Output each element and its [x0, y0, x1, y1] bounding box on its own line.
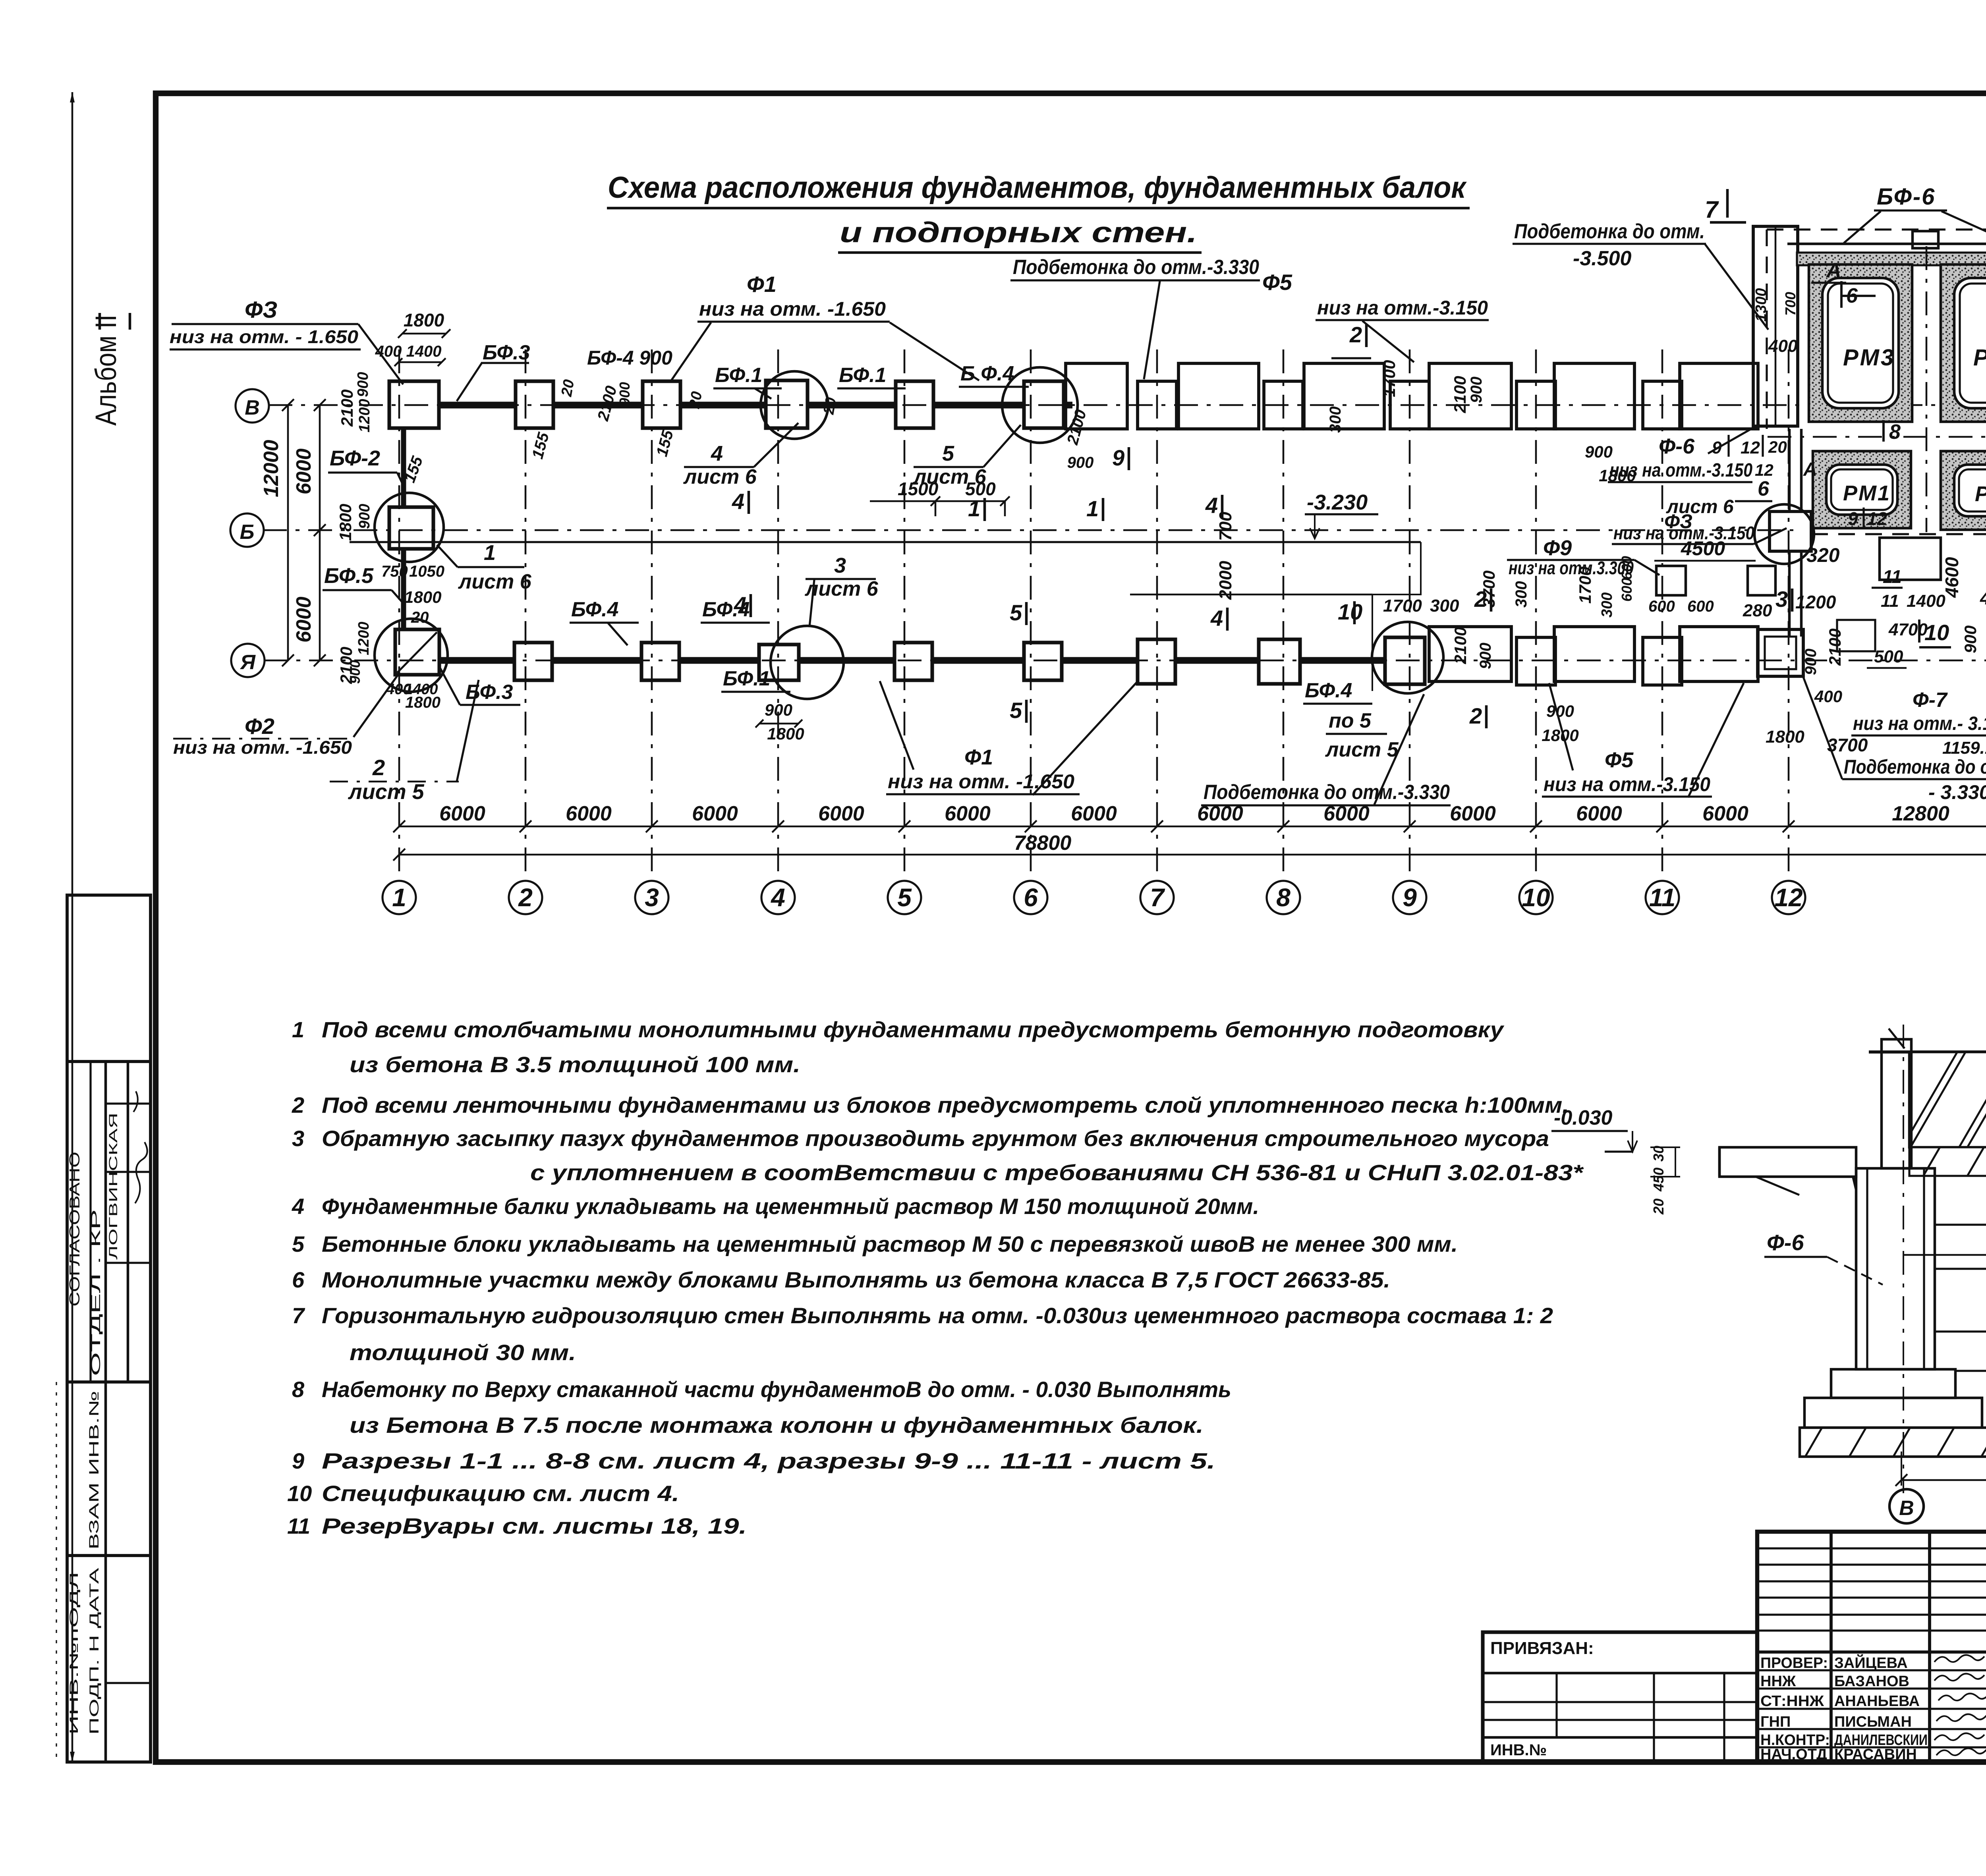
strip footing row V wide blocks: [1066, 363, 1127, 429]
svg-text:7: 7: [1705, 196, 1719, 223]
stamp row lines left: [1757, 1669, 1986, 1671]
sidebar sub lines: [106, 1102, 151, 1104]
svg-text:10: 10: [1338, 599, 1362, 624]
svg-text:400: 400: [1768, 336, 1798, 356]
svg-text:4500: 4500: [1681, 537, 1725, 560]
foundation F-row-A col6: [1024, 643, 1062, 680]
svg-text:1050: 1050: [409, 563, 444, 580]
beam BF segments row V: [439, 402, 516, 409]
axis circle B section: [1889, 1489, 1924, 1523]
svg-text:Схема расположения фундаментов: Схема расположения фундаментов, фундамен…: [608, 171, 1467, 205]
svg-text:низ на отм.-3.150: низ на отм.-3.150: [1544, 773, 1710, 795]
svg-text:лист 6: лист 6: [683, 465, 757, 488]
detail circle B col1: [375, 493, 444, 562]
svg-text:низ на отм.-3.150: низ на отм.-3.150: [1609, 460, 1752, 481]
svg-text:900: 900: [355, 372, 371, 397]
leader podbetonka top: [1144, 281, 1160, 379]
svg-text:лист 6: лист 6: [458, 570, 532, 593]
vertical dim line 6000x2: [319, 405, 321, 660]
svg-text:1800: 1800: [405, 694, 440, 711]
svg-text:1: 1: [392, 883, 406, 912]
svg-text:АНАНЬЕВА: АНАНЬЕВА: [1834, 1693, 1920, 1710]
leader BF-6 right: [1942, 211, 1986, 243]
sidebar line end soglasovano: [67, 1380, 151, 1384]
svg-text:600: 600: [1648, 598, 1675, 615]
structure corridor axis horizontal: [1768, 436, 1986, 438]
svg-text:900: 900: [765, 701, 792, 719]
sidebar col divider 1: [104, 1062, 107, 1762]
stamp upper rows: [1757, 1547, 1986, 1549]
svg-text:1: 1: [1086, 496, 1099, 521]
grid circle 8: [1267, 881, 1300, 914]
section upper column: [1882, 1039, 1911, 1168]
svg-text:320: 320: [1806, 544, 1840, 566]
svg-text:700: 700: [1216, 511, 1235, 541]
svg-text:900: 900: [1961, 625, 1980, 653]
vertical dim line 12000: [287, 405, 289, 660]
svg-text:КРАСАВИН: КРАСАВИН: [1834, 1746, 1917, 1763]
leader F1 b: [890, 322, 979, 380]
svg-text:толщиной 30 мм.: толщиной 30 мм.: [350, 1340, 576, 1365]
section wall top line: [1869, 1050, 1986, 1054]
section mark 2 top underline: [1331, 357, 1371, 359]
svg-text:10: 10: [1924, 620, 1949, 645]
foundation F-row-A col8: [1259, 639, 1300, 684]
detail circle A col4: [771, 626, 844, 699]
svg-text:1: 1: [292, 1017, 304, 1042]
svg-text:5: 5: [1010, 698, 1022, 723]
svg-text:ЗАЙЦЕВА: ЗАЙЦЕВА: [1834, 1654, 1908, 1671]
svg-text:из бетона В 3.5 толщиной 10: из бетона В 3.5 толщиной 100 мм.: [350, 1052, 800, 1077]
svg-text:Монолитные участки между бл: Монолитные участки между блоками Выполня…: [322, 1267, 1390, 1292]
svg-text:БАЗАНОВ: БАЗАНОВ: [1834, 1673, 1909, 1690]
svg-text:3: 3: [645, 883, 659, 912]
foundation F-row-V col3: [643, 381, 680, 428]
svg-text:Ф-6: Ф-6: [1767, 1230, 1804, 1255]
leader 5-6: [983, 425, 1021, 467]
svg-text:3: 3: [292, 1126, 304, 1151]
svg-text:-3.230: -3.230: [1307, 490, 1368, 514]
svg-text:6000: 6000: [439, 802, 485, 825]
grid circle 4: [761, 881, 795, 914]
svg-text:900: 900: [1468, 376, 1485, 403]
svg-text:Спецификацию см. лист 4.: Спецификацию см. лист 4.: [322, 1481, 679, 1506]
svg-text:20: 20: [558, 378, 578, 398]
strip footing row A column blocks: [1517, 637, 1555, 685]
svg-text:6000: 6000: [1576, 802, 1622, 825]
svg-text:низ на отм.-3.150: низ на отм.-3.150: [1317, 297, 1488, 319]
svg-text:БФ.1: БФ.1: [723, 667, 770, 690]
svg-text:300: 300: [1513, 581, 1530, 608]
grid circle 9: [1393, 881, 1426, 914]
section column step 1: [1831, 1369, 1955, 1398]
svg-text:ПРОВЕР:: ПРОВЕР:: [1760, 1655, 1828, 1671]
foundation F-7 col12 row A: [1758, 629, 1803, 676]
svg-text:3700: 3700: [1827, 735, 1868, 755]
grid line 2 vertical: [525, 349, 527, 881]
RM4 inner opening: [1954, 278, 1986, 408]
svg-text:Альбом II: Альбом II: [89, 315, 122, 426]
svg-text:12: 12: [1741, 438, 1760, 457]
strip footing row V column blocks: [1138, 381, 1177, 429]
svg-text:Подбетонка до отм.-3.330: Подбетонка до отм.-3.330: [1013, 256, 1259, 279]
axis line B horizontal: [263, 529, 1793, 531]
svg-text:2100: 2100: [1451, 376, 1469, 413]
grid line 5 vertical: [904, 349, 906, 881]
leader F1 bottom a: [880, 681, 914, 770]
sidebar col divider 2: [127, 1062, 129, 1382]
grid line 7 vertical: [1156, 349, 1158, 881]
svg-text:Фундаментные балки укладывать: Фундаментные балки укладывать на цементн…: [322, 1194, 1259, 1219]
leader podbetonka br: [1803, 677, 1842, 779]
svg-text:ИНВ.№: ИНВ.№: [1490, 1741, 1547, 1759]
svg-text:2: 2: [292, 1092, 304, 1117]
leader F1 a: [671, 322, 711, 380]
svg-text:с уплотнением в соотВетствии: с уплотнением в соотВетствии с требовани…: [530, 1160, 1584, 1185]
RM2 inner opening: [1954, 465, 1986, 516]
svg-text:4: 4: [732, 489, 744, 514]
svg-text:400: 400: [375, 343, 402, 360]
privyazan row line 4: [1483, 1736, 1757, 1739]
svg-text:20: 20: [1768, 438, 1787, 456]
detail circle A col9: [1372, 622, 1443, 693]
svg-text:78800: 78800: [1014, 832, 1072, 855]
svg-text:ОТДЕЛ . КР: ОТДЕЛ . КР: [89, 1209, 103, 1376]
svg-text:20: 20: [820, 396, 840, 416]
sidebar dotted fold line: [56, 1382, 57, 1762]
svg-text:1800: 1800: [404, 310, 444, 330]
svg-text:РМ1: РМ1: [1843, 481, 1891, 505]
main title underline 1: [607, 207, 1470, 210]
detail circle V col6: [1002, 367, 1078, 443]
svg-text:-0.030: -0.030: [1554, 1106, 1613, 1129]
retaining wall col12 strip: [1753, 226, 1798, 426]
leader F9: [1634, 560, 1660, 575]
svg-text:Ф2: Ф2: [245, 714, 274, 739]
grid line 12 vertical: [1788, 349, 1790, 881]
svg-text:лист 5: лист 5: [348, 780, 425, 804]
sidebar col divider 0: [89, 1062, 91, 1382]
svg-text:ГНП: ГНП: [1760, 1714, 1791, 1730]
svg-text:6: 6: [1024, 883, 1038, 912]
dimension line 78800: [399, 854, 1986, 856]
grid line 9 vertical: [1409, 349, 1411, 881]
leader 4-6: [754, 423, 798, 467]
beam segments col12 vertical: [1788, 429, 1791, 510]
svg-text:Разрезы 1-1 ... 8-8 см. ли: Разрезы 1-1 ... 8-8 см. лист 4, разрезы …: [322, 1448, 1215, 1473]
svg-text:4: 4: [1205, 493, 1218, 518]
sidebar signature: [133, 1091, 147, 1203]
svg-text:30: 30: [1650, 1146, 1667, 1162]
sidebar outer box: [67, 895, 151, 1762]
stamp small table verticals: [1830, 1532, 1833, 1762]
leader podbetonka bottom: [1374, 694, 1424, 805]
svg-text:ПОДП. Н ДАТА: ПОДП. Н ДАТА: [87, 1567, 101, 1735]
svg-text:4: 4: [770, 883, 785, 912]
svg-text:10: 10: [1522, 883, 1550, 912]
sidebar top divider: [67, 1060, 151, 1063]
stamp line above prover row: [1757, 1650, 1986, 1654]
foundation F-row-V col1: [389, 381, 439, 428]
svg-text:Подбетонка до отм.: Подбетонка до отм.: [1844, 756, 1986, 778]
svg-text:РМ3: РМ3: [1843, 345, 1895, 371]
axis circle V: [236, 389, 269, 423]
svg-text:4: 4: [734, 592, 746, 617]
svg-text:900: 900: [616, 382, 633, 406]
svg-text:2100: 2100: [338, 390, 356, 427]
section column body: [1856, 1168, 1935, 1369]
label F3 niz underline: [170, 348, 361, 350]
svg-text:РМ2: РМ2: [1975, 482, 1986, 506]
svg-text:РМ4: РМ4: [1973, 345, 1986, 371]
foundation F-row-A col9: [1385, 637, 1425, 684]
svg-text:11: 11: [1883, 566, 1902, 587]
section column step 2: [1804, 1398, 1982, 1428]
fold line left: [71, 92, 73, 1762]
section slab hatched band: [1909, 1052, 1986, 1147]
svg-text:низ на отм. -1.650: низ на отм. -1.650: [173, 737, 352, 758]
svg-text:Б: Б: [240, 521, 255, 544]
svg-text:700: 700: [1782, 292, 1799, 316]
svg-text:450: 450: [1650, 1168, 1667, 1192]
structure top small tab: [1913, 231, 1938, 248]
svg-text:1700: 1700: [1383, 596, 1422, 616]
svg-text:Горизонтальную гидроизоляцию с: Горизонтальную гидроизоляцию стен Выполн…: [322, 1303, 1553, 1328]
svg-text:НАЧ.ОТД: НАЧ.ОТД: [1760, 1746, 1827, 1763]
grid circle 7: [1140, 881, 1174, 914]
svg-text:1800: 1800: [1766, 727, 1804, 747]
leader BF-6 left: [1844, 211, 1881, 243]
svg-text:5: 5: [292, 1231, 305, 1256]
svg-text:1200: 1200: [355, 621, 372, 655]
foundation F9 a: [1656, 566, 1686, 595]
beam BF-5 vertical col1: [401, 549, 406, 629]
section beam left: [1719, 1147, 1856, 1177]
svg-text:2: 2: [518, 883, 533, 912]
svg-text:1159.1: 1159.1: [1942, 738, 1986, 758]
leader 2-5: [457, 680, 479, 782]
beam BF-2 vertical col1: [401, 428, 406, 507]
svg-text:6000: 6000: [1702, 802, 1748, 825]
leader F5 top: [1362, 321, 1414, 362]
wall RM3 outer: [1809, 264, 1912, 422]
svg-text:20: 20: [686, 390, 705, 410]
axis circle A: [231, 644, 265, 677]
svg-text:низ на отм. -1.650: низ на отм. -1.650: [699, 298, 886, 320]
label 2 cut line: [330, 781, 459, 783]
leader F5 a: [1549, 683, 1573, 770]
leader F3: [358, 324, 403, 384]
svg-text:12800: 12800: [1892, 802, 1949, 825]
svg-text:9: 9: [1403, 883, 1417, 912]
svg-text:БФ-2: БФ-2: [330, 446, 380, 470]
svg-text:900: 900: [1585, 442, 1613, 461]
svg-text:6000: 6000: [292, 596, 315, 643]
wall RM2 outer: [1941, 451, 1986, 530]
svg-text:2: 2: [1349, 322, 1362, 347]
svg-text:4700: 4700: [1980, 588, 1986, 608]
structure bottom protrusion: [1880, 538, 1941, 580]
svg-text:В: В: [245, 396, 260, 419]
foundation F4 col1 row B: [389, 507, 433, 549]
RM1 inner opening: [1826, 465, 1897, 515]
svg-text:БФ.3: БФ.3: [483, 341, 530, 364]
svg-text:400: 400: [1814, 687, 1842, 706]
privyazan row line 1: [1483, 1672, 1757, 1675]
svg-text:4600: 4600: [1942, 557, 1962, 598]
svg-text:БФ-6: БФ-6: [1877, 184, 1936, 210]
svg-text:1: 1: [968, 496, 980, 521]
svg-text:500: 500: [1874, 647, 1903, 666]
svg-text:300: 300: [1327, 406, 1344, 433]
svg-text:Ф5: Ф5: [1605, 748, 1634, 772]
svg-text:7: 7: [292, 1303, 305, 1328]
svg-text:Под всеми столбчатыми монолитн: Под всеми столбчатыми монолитными фундам…: [322, 1017, 1505, 1042]
svg-text:7: 7: [1150, 883, 1165, 912]
svg-text:1500: 1500: [898, 479, 939, 499]
svg-text:900: 900: [1067, 454, 1094, 471]
svg-text:6000: 6000: [566, 802, 612, 825]
svg-text:600: 600: [1687, 598, 1714, 615]
svg-text:1400: 1400: [406, 343, 442, 360]
svg-text:Под всеми ленточными фундамен: Под всеми ленточными фундаментами из бло…: [322, 1092, 1569, 1117]
structure top hatched band: [1797, 253, 1986, 265]
detail circle V col4: [761, 371, 828, 439]
foundation F-row-A col2: [514, 643, 552, 680]
svg-text:1300: 1300: [1753, 288, 1770, 322]
svg-text:1800: 1800: [336, 504, 355, 541]
svg-text:5: 5: [1010, 600, 1022, 625]
svg-text:900: 900: [347, 660, 363, 684]
grid circle 11: [1646, 881, 1679, 914]
svg-text:1800: 1800: [767, 724, 804, 743]
svg-text:1400: 1400: [1907, 591, 1945, 611]
svg-text:БФ.1: БФ.1: [715, 364, 762, 387]
svg-text:12: 12: [1774, 883, 1802, 912]
section small line under beam: [1756, 1177, 1799, 1195]
leader 3-6: [809, 580, 814, 627]
wall RM1 outer: [1813, 451, 1911, 528]
svg-text:2: 2: [372, 755, 385, 780]
svg-text:1800: 1800: [404, 588, 441, 606]
svg-text:- 3.330: - 3.330: [1928, 781, 1986, 803]
svg-text:БФ.3: БФ.3: [466, 681, 513, 704]
svg-text:11: 11: [287, 1513, 310, 1538]
svg-text:5: 5: [942, 442, 954, 465]
svg-text:и подпорных стен.: и подпорных стен.: [840, 217, 1197, 249]
leader F3 right: [1754, 528, 1787, 544]
leader F5 b: [1688, 683, 1744, 797]
svg-text:ПИСЬМАН: ПИСЬМАН: [1834, 1714, 1912, 1730]
section horizontal joints: [1935, 1224, 1986, 1226]
grid line 10 vertical: [1535, 349, 1537, 881]
axis circle B: [230, 513, 264, 547]
structure outer dashed outline: [1767, 228, 1986, 230]
pit outline -3.230: [350, 541, 1421, 543]
svg-text:600: 600: [1619, 578, 1635, 602]
grid line 1 vertical: [398, 349, 400, 881]
section under-slab band: [1909, 1147, 1986, 1176]
svg-text:РезерВуары см. листы 18, 19: РезерВуары см. листы 18, 19.: [322, 1513, 747, 1538]
grid circle 5: [888, 881, 921, 914]
grid circle 12: [1772, 881, 1805, 914]
svg-text:БФ.4: БФ.4: [571, 598, 619, 621]
svg-text:8: 8: [1276, 883, 1291, 912]
svg-text:В: В: [1899, 1497, 1914, 1520]
svg-text:6000: 6000: [1450, 802, 1496, 825]
foundation F-row-V col4: [766, 380, 808, 428]
svg-text:9: 9: [1712, 438, 1722, 457]
svg-text:280: 280: [1743, 601, 1772, 620]
svg-text:СТ:ННЖ: СТ:ННЖ: [1760, 1693, 1824, 1710]
svg-text:9: 9: [1848, 508, 1858, 529]
foundation F-row-V col6: [1024, 381, 1064, 428]
svg-text:лист 6: лист 6: [804, 577, 879, 600]
grid line 8 vertical: [1283, 349, 1285, 881]
svg-text:4: 4: [292, 1194, 304, 1219]
svg-text:12: 12: [1867, 508, 1887, 529]
svg-text:4700: 4700: [1888, 620, 1928, 639]
strip footing row A wide blocks: [1429, 627, 1511, 681]
svg-text:Набетонку по Верху стаканной: Набетонку по Верху стаканной части фунда…: [322, 1377, 1231, 1402]
main title underline 2: [838, 251, 1202, 254]
svg-text:6: 6: [1758, 477, 1770, 500]
section beam hatch wedge: [1852, 1177, 1856, 1195]
section centerline: [1903, 1025, 1904, 1493]
foundation F-row-V col5: [896, 381, 933, 428]
grid circle 1: [383, 881, 416, 914]
svg-text:300: 300: [1430, 596, 1459, 616]
svg-text:900: 900: [356, 504, 373, 529]
dimension line 6000 chain: [399, 826, 1986, 828]
svg-text:Ф1: Ф1: [964, 745, 993, 769]
svg-text:2100: 2100: [1451, 627, 1470, 664]
svg-text:5: 5: [897, 883, 912, 912]
svg-text:ФЗ: ФЗ: [245, 297, 278, 323]
grid line 11 vertical: [1661, 349, 1663, 881]
svg-text:2: 2: [1469, 703, 1482, 728]
svg-text:900: 900: [1802, 648, 1820, 675]
svg-text:БФ-4 900: БФ-4 900: [587, 347, 672, 369]
svg-text:10: 10: [287, 1481, 312, 1506]
svg-text:Ф-6: Ф-6: [1659, 434, 1695, 458]
svg-text:6000: 6000: [1071, 802, 1117, 825]
foundation F-row-A col5: [894, 643, 932, 680]
svg-text:-3.500: -3.500: [1573, 247, 1632, 270]
leader F-6: [1708, 424, 1760, 454]
svg-text:Бетонные блоки укладывать на: Бетонные блоки укладывать на цементный р…: [322, 1231, 1458, 1256]
privyazan table outer: [1483, 1632, 1757, 1762]
detail circle B col12: [1754, 504, 1814, 564]
privyazan verticals: [1555, 1673, 1557, 1737]
foundation F2 col1 row A: [395, 629, 439, 675]
foundation F-row-A col4: [759, 645, 799, 680]
svg-text:Ф9: Ф9: [1543, 536, 1572, 560]
stamp signatures: [1934, 1655, 1984, 1662]
svg-text:4: 4: [711, 442, 723, 465]
svg-text:9: 9: [1112, 445, 1124, 470]
svg-text:Ф1: Ф1: [747, 272, 777, 297]
svg-text:А: А: [1803, 459, 1817, 480]
svg-text:2: 2: [1474, 587, 1487, 612]
svg-text:Ф5: Ф5: [1262, 270, 1292, 295]
svg-text:300: 300: [1599, 593, 1615, 618]
svg-text:Я: Я: [240, 651, 256, 674]
RM3 inner opening: [1822, 278, 1899, 408]
sidebar line end vzam: [67, 1554, 151, 1557]
svg-text:6000: 6000: [945, 802, 991, 825]
svg-text:1800: 1800: [1542, 726, 1578, 745]
